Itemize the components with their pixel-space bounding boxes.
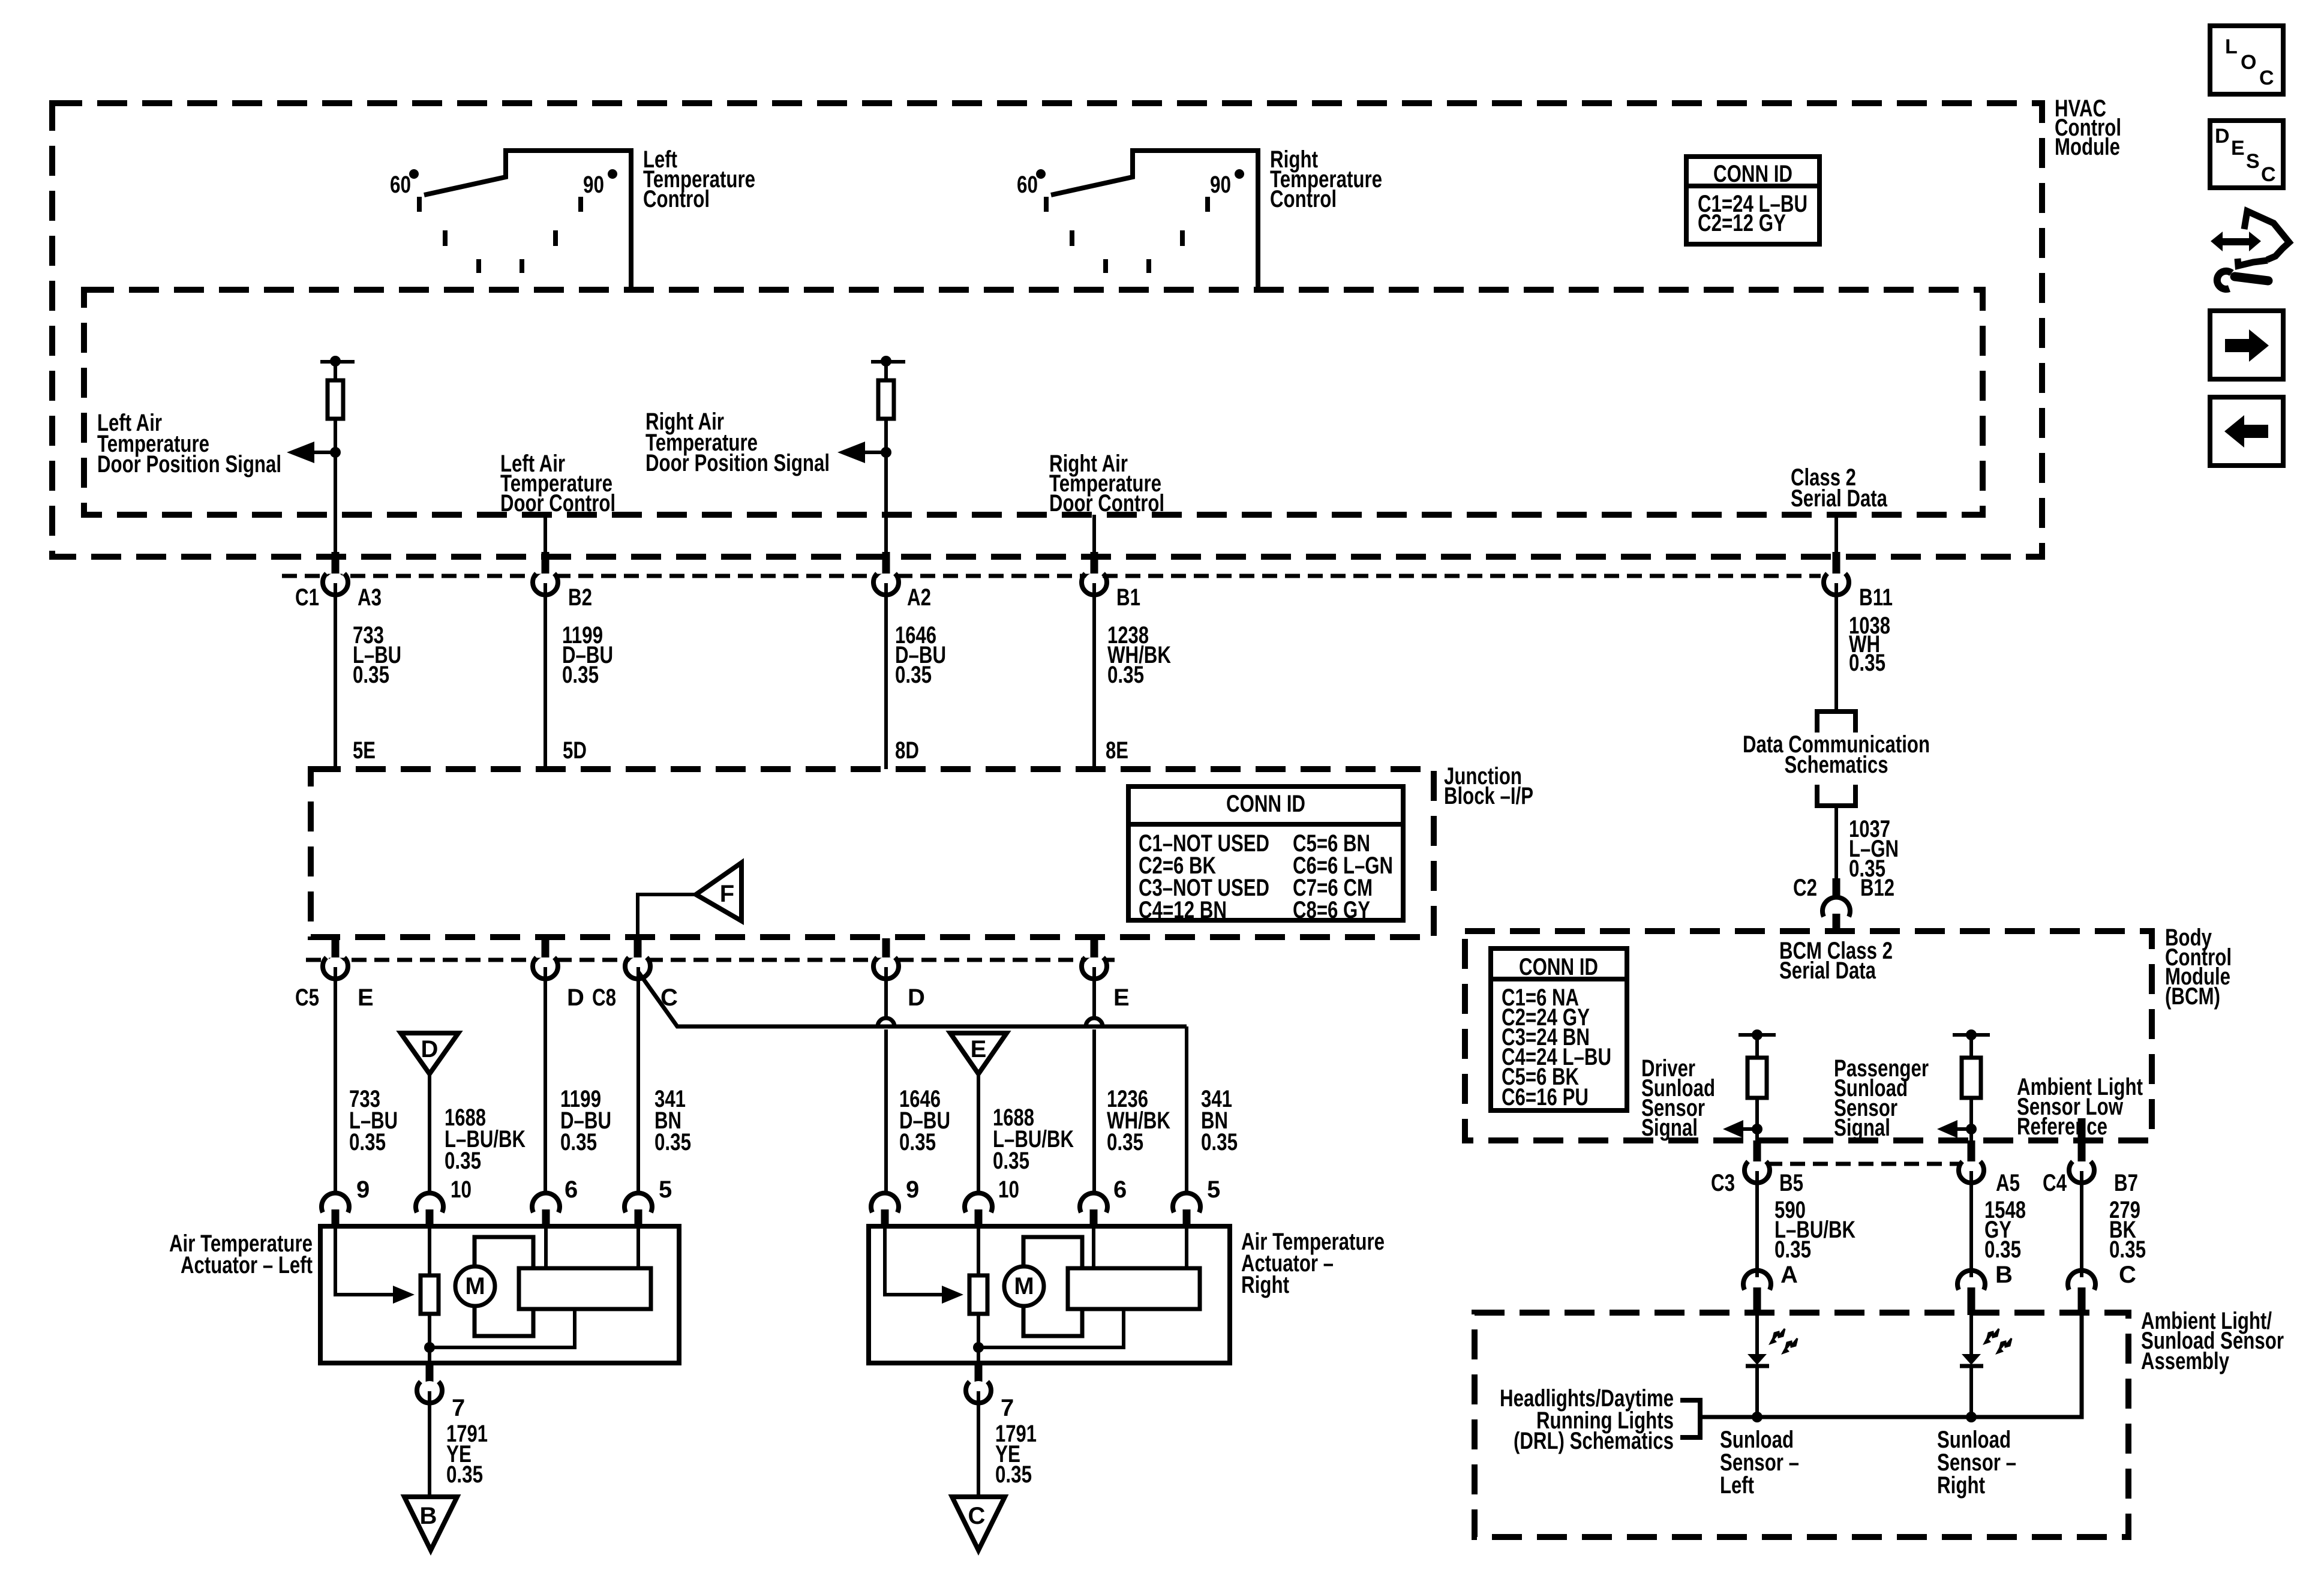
svg-text:Control: Control xyxy=(643,186,710,212)
connector 7 (left actuator) xyxy=(417,1364,465,1497)
connector B triangle xyxy=(404,1497,457,1550)
right actuator feedback rectangle xyxy=(1068,1268,1200,1309)
svg-text:C8=6 GY: C8=6 GY xyxy=(1293,897,1370,923)
driver sunload sensor resistor branch xyxy=(1723,1029,1776,1140)
svg-text:Serial Data: Serial Data xyxy=(1791,485,1888,512)
svg-text:M: M xyxy=(1014,1273,1034,1299)
svg-text:D: D xyxy=(567,984,584,1011)
sunload sensor pin A connector xyxy=(1743,1271,1771,1315)
svg-text:A: A xyxy=(1780,1262,1798,1288)
left actuator motor winding loop xyxy=(475,1237,533,1336)
HVAC connector row dotted line xyxy=(282,574,1821,578)
left actuator pin10 wire through pot xyxy=(424,1229,435,1363)
connector A2 xyxy=(873,552,931,769)
HVAC Control Module outer dashed box xyxy=(52,103,2042,557)
svg-text:0.35: 0.35 xyxy=(895,662,932,688)
HVAC Control Module label xyxy=(2055,95,2121,160)
svg-text:0.35: 0.35 xyxy=(1774,1236,1811,1263)
svg-text:0.35: 0.35 xyxy=(1107,1129,1143,1155)
svg-text:S: S xyxy=(2246,150,2260,173)
connector C8-C xyxy=(592,938,678,1011)
data communication schematics bottom bracket xyxy=(1817,785,1855,806)
Air Temperature Actuator - Right label xyxy=(1241,1229,1385,1298)
pin 9 connector (right) xyxy=(871,1176,919,1227)
svg-text:C2: C2 xyxy=(1793,875,1817,901)
Headlights/Daytime Running Lights (DRL) Schematics label xyxy=(1500,1385,1674,1454)
svg-text:0.35: 0.35 xyxy=(349,1129,386,1155)
svg-text:C4: C4 xyxy=(2043,1170,2067,1196)
left actuator pin6 wire xyxy=(544,1229,548,1268)
ambient light pin C connector xyxy=(2068,1271,2095,1315)
svg-text:E: E xyxy=(1113,984,1130,1011)
wire label 1791 YE 0.35 (left) xyxy=(446,1421,488,1488)
Right Air Temperature Door Control label xyxy=(1049,451,1164,517)
svg-text:B5: B5 xyxy=(1779,1170,1803,1196)
svg-text:5: 5 xyxy=(1207,1176,1220,1203)
svg-text:B: B xyxy=(420,1503,437,1529)
connector D (left) xyxy=(533,938,584,1194)
BCM CONN ID table xyxy=(1491,948,1627,1110)
svg-text:0.35: 0.35 xyxy=(1107,662,1144,688)
right air temp door position signal resistor branch xyxy=(837,356,905,553)
Left Air Temperature Door Position Signal label xyxy=(97,410,281,478)
LOC icon box xyxy=(2210,26,2283,94)
Class 2 Serial Data label xyxy=(1791,464,1888,512)
connector D triangle xyxy=(401,1033,458,1194)
svg-text:C8: C8 xyxy=(592,984,616,1011)
svg-text:60: 60 xyxy=(390,172,411,198)
right actuator wiper feedback wire xyxy=(978,1309,1124,1347)
wire B2 stub inside HVAC xyxy=(544,515,547,553)
connector E (right) xyxy=(1082,938,1130,1011)
svg-text:B1: B1 xyxy=(1116,584,1140,611)
connector B11 xyxy=(1824,552,1893,712)
wire label 1038 WH 0.35 xyxy=(1849,613,1890,676)
svg-text:O: O xyxy=(2241,51,2256,74)
pin 10 connector (left) xyxy=(416,1176,472,1227)
svg-text:Door Control: Door Control xyxy=(1049,490,1164,517)
svg-text:M: M xyxy=(465,1273,485,1299)
svg-text:Reference: Reference xyxy=(2017,1113,2107,1140)
pin 10 connector (right) xyxy=(965,1176,1019,1227)
svg-text:Signal: Signal xyxy=(1641,1115,1698,1141)
svg-text:B11: B11 xyxy=(1859,584,1893,611)
pin 6 connector (left) xyxy=(532,1176,578,1227)
Right Temperature Control label xyxy=(1270,146,1382,212)
connector D (right) xyxy=(873,938,925,1011)
left actuator feedback rectangle xyxy=(519,1268,651,1309)
svg-text:90: 90 xyxy=(583,172,604,198)
wire 1037 from bracket to BCM xyxy=(1834,806,1838,879)
svg-text:0.35: 0.35 xyxy=(1984,1236,2021,1263)
svg-text:Module: Module xyxy=(2055,134,2120,160)
wire C8-C down to left pin 5 xyxy=(636,967,640,1194)
svg-text:E: E xyxy=(2231,137,2245,160)
sunload sensor left photodiode xyxy=(1746,1315,1797,1417)
svg-text:Schematics: Schematics xyxy=(1785,752,1888,778)
Sunload Sensor - Left label xyxy=(1720,1427,1799,1499)
svg-text:C: C xyxy=(968,1503,986,1529)
svg-text:(DRL) Schematics: (DRL) Schematics xyxy=(1514,1428,1674,1454)
left actuator potentiometer xyxy=(421,1275,439,1314)
svg-text:CONN ID: CONN ID xyxy=(1226,791,1305,817)
svg-text:Door Position Signal: Door Position Signal xyxy=(645,450,830,476)
connector B1 xyxy=(1082,552,1140,769)
wire label 1791 YE 0.35 (right) xyxy=(995,1421,1037,1488)
sunload sensor pin B connector xyxy=(1957,1271,1985,1315)
Junction Block I/P dashed box xyxy=(311,769,1434,937)
connector B2 xyxy=(533,552,592,769)
pin 5 connector (right) xyxy=(1173,1176,1220,1227)
diagnostic wrench icon xyxy=(2211,211,2289,289)
svg-text:C4=12 BN: C4=12 BN xyxy=(1139,897,1227,923)
svg-text:Block –I/P: Block –I/P xyxy=(1444,783,1533,809)
connector C3-B5 xyxy=(1711,1140,1803,1277)
svg-text:C: C xyxy=(2261,163,2276,186)
passenger sunload sensor resistor branch xyxy=(1937,1029,1990,1140)
connector E triangle xyxy=(950,1033,1007,1194)
svg-text:A2: A2 xyxy=(907,584,931,611)
Ambient Light Sensor Low Reference label xyxy=(2017,1074,2143,1140)
terminal label 8E xyxy=(1106,737,1128,764)
Ambient Light / Sunload Sensor Assembly dashed box xyxy=(1475,1313,2128,1537)
svg-text:8E: 8E xyxy=(1106,737,1128,764)
svg-text:E: E xyxy=(971,1036,987,1062)
right actuator pin6 wire xyxy=(1092,1229,1095,1268)
svg-text:0.35: 0.35 xyxy=(2109,1236,2146,1263)
svg-text:Left: Left xyxy=(1720,1472,1754,1499)
left air temp door position signal resistor branch xyxy=(287,356,355,553)
wire label 1688 L-BU/BK 0.35 (right) xyxy=(993,1104,1074,1174)
terminal label 5D xyxy=(563,737,587,764)
BCM Class 2 Serial Data label xyxy=(1779,938,1893,984)
wire label 279 BK 0.35 C xyxy=(2109,1197,2146,1288)
svg-text:Right: Right xyxy=(1241,1272,1289,1298)
left actuator pin9 internal wire with arrow to potentiometer xyxy=(335,1229,415,1304)
svg-text:(BCM): (BCM) xyxy=(2165,983,2220,1010)
wire C8-C diagonal to right actuator pin 5 xyxy=(638,972,1187,1194)
wire B1 stub inside HVAC xyxy=(1092,515,1096,553)
svg-text:0.35: 0.35 xyxy=(353,662,389,688)
svg-text:B12: B12 xyxy=(1860,875,1894,901)
HVAC CONN ID table xyxy=(1686,157,1819,244)
wire label 733 L-BU 0.35 (to left actuator) xyxy=(349,1086,398,1155)
svg-text:0.35: 0.35 xyxy=(654,1129,691,1155)
Left Temperature Control label xyxy=(643,146,755,212)
BCM connector row dotted line xyxy=(1767,1162,1962,1166)
pin 6 connector (right) xyxy=(1080,1176,1127,1227)
right actuator pin10 wire through pot xyxy=(973,1229,984,1363)
wire from F to C8-C xyxy=(638,894,696,937)
left actuator pin5 wire xyxy=(636,1229,640,1268)
svg-text:0.35: 0.35 xyxy=(445,1148,481,1174)
svg-text:E: E xyxy=(358,984,374,1011)
svg-text:C: C xyxy=(2119,1262,2136,1288)
svg-text:5E: 5E xyxy=(353,737,376,764)
wire label 1646 D-BU 0.35 xyxy=(895,622,946,688)
wire B11 stub inside HVAC xyxy=(1834,515,1838,553)
svg-text:6: 6 xyxy=(565,1176,578,1203)
svg-text:0.35: 0.35 xyxy=(1201,1129,1238,1155)
HVAC inner dashed box xyxy=(84,290,1983,515)
wire label 1646 D-BU 0.35 (to right actuator) xyxy=(899,1086,950,1155)
Body Control Module dashed box xyxy=(1465,931,2152,1140)
svg-text:C3: C3 xyxy=(1711,1170,1735,1196)
svg-text:0.35: 0.35 xyxy=(899,1129,936,1155)
svg-text:0.35: 0.35 xyxy=(560,1129,597,1155)
connector F triangle xyxy=(696,863,741,921)
svg-text:C5: C5 xyxy=(295,984,319,1011)
wire label 1236 WH/BK 0.35 (right) xyxy=(1107,1086,1170,1155)
data communication schematics top bracket xyxy=(1817,712,1855,733)
wire label 1199 D-BU 0.35 xyxy=(562,622,613,688)
connector C1-A3 xyxy=(295,552,382,769)
svg-text:CONN ID: CONN ID xyxy=(1713,161,1792,187)
pin 9 connector (left) xyxy=(322,1176,370,1227)
svg-text:D: D xyxy=(908,984,925,1011)
wire label 733 L-BU 0.35 xyxy=(353,622,401,688)
Left Air Temperature Door Control label xyxy=(500,451,615,517)
Data Communication Schematics label xyxy=(1743,731,1930,778)
svg-text:Assembly: Assembly xyxy=(2141,1348,2230,1374)
svg-text:Signal: Signal xyxy=(1834,1115,1890,1141)
svg-text:8D: 8D xyxy=(895,737,919,764)
wire label 590 L-BU/BK 0.35 A xyxy=(1774,1197,1855,1288)
svg-text:0.35: 0.35 xyxy=(1849,650,1885,676)
svg-text:C1: C1 xyxy=(295,584,319,611)
Ambient Light/Sunload Sensor Assembly label xyxy=(2141,1308,2284,1374)
svg-text:7: 7 xyxy=(1001,1395,1014,1421)
connector C4-B7 xyxy=(2043,1140,2138,1277)
svg-text:F: F xyxy=(720,881,734,907)
right actuator pin9 internal wire with arrow to potentiometer xyxy=(885,1229,963,1304)
svg-text:C: C xyxy=(2259,67,2274,89)
svg-text:L: L xyxy=(2225,35,2238,58)
right actuator motor winding loop xyxy=(1023,1237,1082,1336)
svg-text:5: 5 xyxy=(659,1176,672,1203)
svg-text:Serial Data: Serial Data xyxy=(1779,957,1876,984)
svg-text:0.35: 0.35 xyxy=(446,1461,483,1488)
back arrow icon box xyxy=(2210,397,2283,466)
svg-text:9: 9 xyxy=(906,1176,919,1203)
svg-text:7: 7 xyxy=(452,1395,465,1421)
svg-text:10: 10 xyxy=(998,1176,1019,1203)
wire label 1688 L-BU/BK 0.35 (left) xyxy=(445,1104,526,1174)
svg-text:5D: 5D xyxy=(563,737,587,764)
connector A5 xyxy=(1959,1140,2020,1277)
terminal label 5E xyxy=(353,737,376,764)
svg-text:Door Control: Door Control xyxy=(500,490,615,517)
Driver Sunload Sensor Signal label xyxy=(1641,1055,1715,1141)
svg-text:0.35: 0.35 xyxy=(562,662,599,688)
right actuator motor M xyxy=(1004,1266,1044,1306)
Right Air Temperature Door Position Signal label xyxy=(645,409,830,476)
forward arrow icon box xyxy=(2210,311,2283,379)
svg-text:90: 90 xyxy=(1210,172,1231,198)
DESC icon box xyxy=(2210,121,2283,188)
left actuator wiper feedback wire xyxy=(430,1309,575,1347)
svg-text:D: D xyxy=(421,1036,439,1062)
wire label 1238 WH/BK 0.35 xyxy=(1107,622,1171,688)
Body Control Module (BCM) label xyxy=(2165,924,2232,1010)
sunload sensor right photodiode xyxy=(1960,1315,2011,1417)
right temperature control dial xyxy=(1017,151,1258,290)
connector C triangle xyxy=(952,1497,1005,1550)
wire label 1037 L-GN 0.35 xyxy=(1849,816,1899,882)
svg-text:D: D xyxy=(2215,125,2230,148)
Junction CONN ID table xyxy=(1128,786,1403,923)
svg-text:B7: B7 xyxy=(2114,1170,2138,1196)
svg-text:C2=12 GY: C2=12 GY xyxy=(1698,210,1786,236)
svg-text:A3: A3 xyxy=(358,584,382,611)
svg-text:Control: Control xyxy=(1270,186,1337,212)
connector C2-B12 xyxy=(1793,875,1894,933)
junction block bottom connector row dotted line xyxy=(306,958,1115,962)
svg-text:9: 9 xyxy=(356,1176,370,1203)
Sunload Sensor - Right label xyxy=(1937,1427,2016,1499)
air temperature actuator left box xyxy=(320,1226,679,1363)
connector 7 (right actuator) xyxy=(966,1364,1014,1497)
svg-text:Actuator – Left: Actuator – Left xyxy=(181,1252,313,1278)
svg-text:0.35: 0.35 xyxy=(993,1148,1029,1174)
Air Temperature Actuator - Left label xyxy=(169,1230,313,1278)
svg-text:6: 6 xyxy=(1113,1176,1127,1203)
svg-text:CONN ID: CONN ID xyxy=(1519,954,1598,980)
wire D to right pin 9 with hop over C8 wire xyxy=(878,967,894,1194)
right actuator pin5 wire xyxy=(1185,1229,1188,1268)
wire label 1199 D-BU 0.35 (to left actuator) xyxy=(560,1086,611,1155)
left actuator motor M xyxy=(455,1266,495,1306)
svg-text:10: 10 xyxy=(451,1176,472,1203)
wire label 341 BN 0.35 (right) xyxy=(1201,1086,1238,1155)
air temperature actuator right box xyxy=(869,1226,1230,1363)
right actuator potentiometer xyxy=(969,1275,987,1314)
svg-text:60: 60 xyxy=(1017,172,1038,198)
svg-text:Door Position Signal: Door Position Signal xyxy=(97,451,281,478)
svg-text:B2: B2 xyxy=(568,584,592,611)
wire E to right pin 6 with hop over C8 wire xyxy=(1086,967,1103,1194)
svg-text:B: B xyxy=(1995,1262,2013,1288)
headlights DRL bracket xyxy=(1680,1400,1700,1437)
connector C5-E xyxy=(295,938,374,1194)
left temperature control dial xyxy=(390,151,631,290)
svg-text:A5: A5 xyxy=(1996,1170,2020,1196)
svg-text:C6=16 PU: C6=16 PU xyxy=(1502,1084,1589,1110)
pin 5 connector (left) xyxy=(624,1176,672,1227)
svg-text:Right: Right xyxy=(1937,1472,1985,1499)
svg-text:0.35: 0.35 xyxy=(995,1461,1032,1488)
ambient light reference stub inside BCM xyxy=(2078,1118,2086,1139)
Junction Block -I/P label xyxy=(1444,763,1533,809)
terminal label 8D xyxy=(895,737,919,764)
sensor common bus wire xyxy=(1700,1315,2082,1422)
Passenger Sunload Sensor Signal label xyxy=(1834,1055,1929,1141)
wire label 341 BN 0.35 (left) xyxy=(654,1086,691,1155)
wire label 1548 GY 0.35 B xyxy=(1984,1197,2026,1288)
